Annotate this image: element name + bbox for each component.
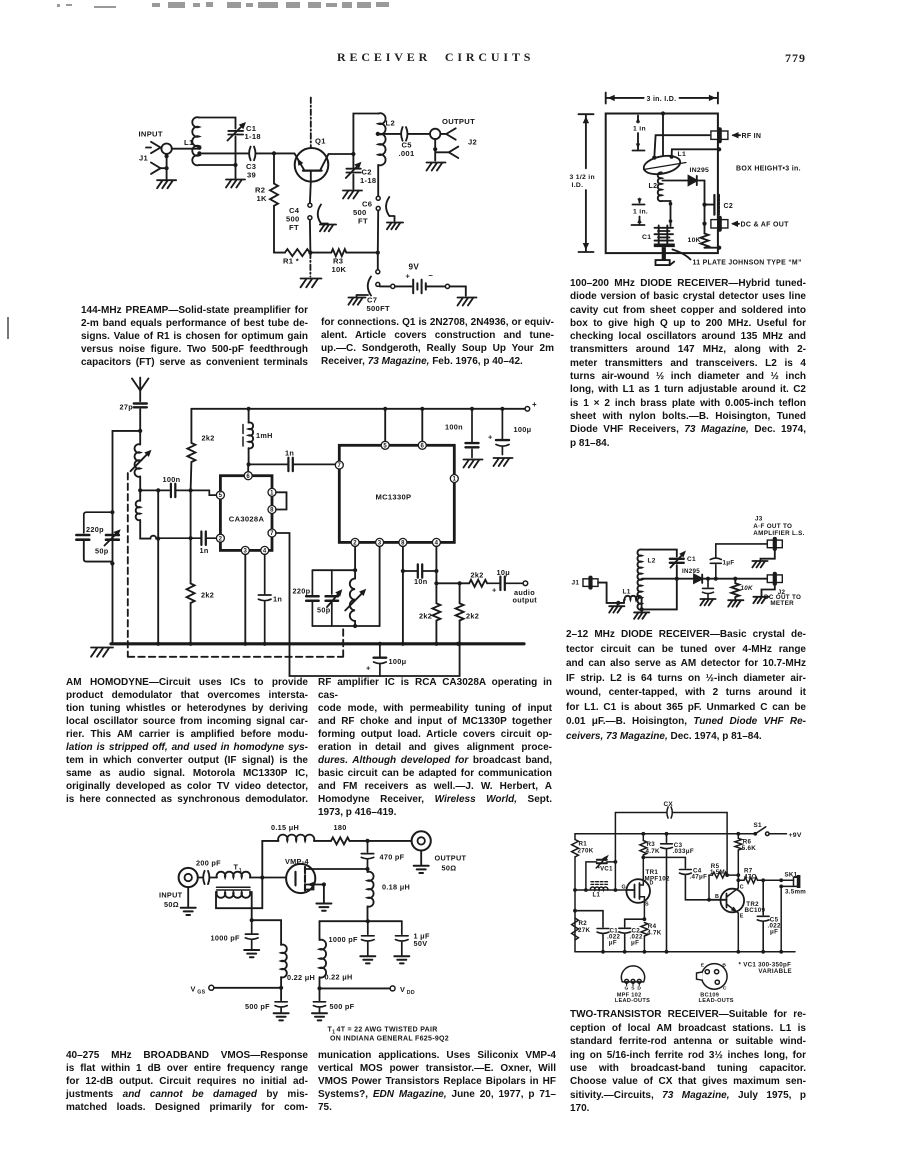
label RF IN [732, 132, 762, 140]
capacitor C3 39 [199, 147, 274, 161]
svg-text:2k2: 2k2 [419, 612, 432, 621]
svg-text:2: 2 [219, 536, 223, 542]
svg-text:500FT: 500FT [367, 304, 391, 313]
wire tank top [642, 550, 677, 557]
svg-text:10K: 10K [688, 237, 701, 244]
ground (tank) [226, 180, 245, 188]
svg-text:GS: GS [197, 989, 205, 995]
ground (L2) [641, 609, 643, 612]
capacitor 500 pF (drain) [313, 1002, 325, 1012]
svg-text:8: 8 [270, 508, 274, 514]
svg-text:C: C [740, 885, 744, 891]
svg-text:100n: 100n [163, 475, 181, 484]
caption 6 [570, 1008, 806, 1115]
capacitor 220p [76, 512, 112, 561]
svg-text:*VC1: *VC1 [598, 867, 614, 873]
svg-text:.47μF: .47μF [690, 874, 708, 881]
svg-text:500 pF: 500 pF [245, 1002, 270, 1011]
svg-text:1: 1 [239, 868, 242, 874]
capacitor 27p [134, 391, 147, 431]
node drain [365, 867, 369, 871]
svg-text:C1: C1 [642, 234, 651, 241]
svg-text:C1: C1 [687, 556, 696, 563]
svg-text:100μ: 100μ [389, 657, 407, 666]
svg-text:R2: R2 [579, 920, 588, 927]
svg-text:L1: L1 [623, 589, 631, 596]
svg-text:39: 39 [247, 171, 256, 180]
capacitor 1 uF 50V [396, 921, 409, 955]
svg-text:1-18: 1-18 [360, 176, 376, 185]
node coil/100n [138, 488, 142, 492]
wire input ground [187, 887, 189, 907]
connector J2 OUTPUT [430, 128, 458, 160]
svg-text:10n: 10n [414, 577, 427, 586]
svg-text:0.18 μH: 0.18 μH [382, 883, 410, 892]
resistor R7 47ohm [738, 877, 779, 883]
capacitor C1 .022uF [575, 911, 609, 952]
ground (battery) [458, 298, 477, 306]
node drain bias [366, 919, 370, 923]
caption 1 left [81, 304, 308, 369]
capacitor C7 500FT (feedthrough) [357, 253, 391, 297]
wire CX left drop [614, 813, 616, 891]
resistor R3 4.7K [640, 834, 647, 858]
wire J2 ground [762, 583, 775, 596]
wire stub (L1 support) [662, 114, 664, 159]
svg-text:+: + [366, 664, 371, 673]
shield partition (dash-dot) [310, 98, 312, 147]
transistor TR2 BC109 [709, 880, 744, 952]
wire pin3b down [379, 547, 381, 627]
terminal V+ [525, 407, 530, 412]
capacitor C6 500 FT (feedthrough) [376, 165, 394, 253]
svg-text:S: S [645, 902, 649, 908]
battery 9V [391, 271, 466, 296]
svg-text:50p: 50p [317, 606, 331, 615]
wire pin7 to decoupling loop [276, 533, 460, 676]
svg-text:2k2: 2k2 [202, 434, 215, 443]
svg-text:BOX HEIGHT•3 in.: BOX HEIGHT•3 in. [736, 166, 801, 173]
svg-text:4T = 22 AWG TWISTED PAIR: 4T = 22 AWG TWISTED PAIR [337, 1027, 438, 1034]
ground (output) [414, 866, 429, 873]
svg-text:1 in: 1 in [633, 126, 646, 133]
wire bias rail [320, 920, 402, 922]
resistor 2k2 (lower left) [187, 583, 195, 643]
node source [643, 917, 647, 921]
inductor (osc, variable) [345, 579, 366, 627]
node gate bias [250, 918, 254, 922]
wire secondary left return [216, 878, 262, 909]
connector J1 [146, 142, 172, 180]
capacitor C5 .022uF [757, 880, 769, 952]
wire pin6 to choke node [247, 464, 249, 471]
svg-text:0.22 μH: 0.22 μH [287, 973, 315, 982]
svg-text:IN295: IN295 [682, 568, 700, 575]
node VGS [279, 986, 283, 990]
svg-text:3 1/2 in: 3 1/2 in [570, 174, 595, 181]
ground (gate 500pF) [274, 1013, 289, 1020]
wire tank bottom bracket [312, 625, 379, 627]
svg-text:27K: 27K [578, 927, 590, 934]
svg-text:output: output [513, 596, 538, 605]
node collector [351, 152, 355, 156]
wire CX right drop [726, 813, 728, 876]
svg-text:10K: 10K [741, 585, 753, 592]
wire diode down [704, 181, 706, 234]
wire RF IN [654, 135, 709, 157]
capacitor 50p (variable) [105, 529, 121, 545]
svg-text:A·F OUT TO: A·F OUT TO [753, 523, 792, 530]
capacitor C1 (variable) [670, 551, 686, 568]
node tank bottom [110, 561, 114, 565]
ground (rail) [91, 648, 113, 657]
wire tank right lower [642, 565, 677, 609]
svg-text:47Ω: 47Ω [744, 873, 757, 880]
inductor (variable, RF input tank) [131, 431, 152, 491]
svg-text:7: 7 [337, 463, 341, 469]
capacitor C5 .001 [378, 127, 430, 141]
wire J3 ground [761, 548, 775, 560]
svg-text:500 pF: 500 pF [330, 1002, 355, 1011]
inductor 1mH [243, 409, 253, 465]
svg-text:G: G [622, 884, 627, 890]
svg-text:6: 6 [420, 443, 424, 449]
inductor L1 (ferrite rod) [590, 882, 607, 890]
svg-text:DD: DD [407, 990, 415, 996]
ground (C4) [320, 225, 336, 232]
inductor secondary (osc pickup) [136, 490, 158, 538]
connector OUTPUT 50ohm [412, 831, 431, 850]
svg-text:10μ: 10μ [497, 568, 510, 577]
transformer T1 primary [217, 872, 251, 878]
svg-text:VMP-4: VMP-4 [285, 857, 309, 866]
capacitor 100u (decoupling) [374, 644, 387, 676]
ground (100u top) [494, 458, 513, 466]
wire collector to L2 [353, 114, 378, 155]
wire pin1-pin8 jumper [276, 492, 287, 509]
capacitor C2 (brass plate) [705, 195, 719, 215]
svg-text:1mH: 1mH [256, 431, 273, 440]
resistor 180 [331, 837, 350, 844]
caption 4 [566, 628, 806, 744]
svg-text:CA3028A: CA3028A [229, 515, 265, 524]
inductor 0.15 uH [278, 835, 314, 841]
capacitor C (unmarked) [703, 579, 714, 598]
ground (unmarked C) [700, 599, 715, 605]
wire L1 to box wall [672, 149, 718, 156]
svg-text:FT: FT [358, 217, 368, 226]
svg-text:27p: 27p [120, 403, 134, 412]
node L1 ground tap [616, 601, 620, 605]
svg-text:INPUT: INPUT [139, 130, 163, 139]
svg-text:+: + [532, 400, 537, 409]
ground (source) [316, 904, 331, 911]
ground (10K) [728, 600, 743, 606]
svg-text:0.22 μH: 0.22 μH [325, 973, 353, 982]
dimension 3 in. I.D. [606, 93, 718, 104]
ground (100n) [464, 460, 483, 468]
resistor R6 5.6K [735, 834, 742, 881]
switch S1 [753, 827, 786, 836]
svg-text:μF: μF [609, 939, 617, 946]
svg-text:S1: S1 [754, 822, 763, 829]
wire collector [328, 153, 353, 155]
capacitor 10u [487, 577, 523, 590]
diode IN295 [663, 176, 705, 185]
inductor L2 [637, 549, 641, 609]
svg-text:1.5M: 1.5M [710, 869, 725, 876]
svg-text:50V: 50V [414, 939, 428, 948]
svg-text:1n: 1n [285, 449, 294, 458]
terminal VGS [209, 985, 214, 990]
resistor R1 270K [572, 834, 579, 952]
svg-text:MC1330P: MC1330P [376, 493, 412, 502]
wire supply rail [575, 833, 754, 835]
ground (L1) [617, 603, 618, 606]
svg-text:3.5mm: 3.5mm [785, 889, 806, 896]
wire V+ rail [191, 408, 525, 410]
svg-text:+: + [406, 272, 411, 281]
ground (emitter rail) [301, 279, 322, 288]
capacitor C4 500 FT (feedthrough) [308, 181, 328, 252]
ground (C7) [348, 298, 365, 305]
resistor 2k2 (audio shunt) [456, 583, 464, 644]
wire ground rail [575, 951, 795, 953]
wire gate line [575, 889, 627, 891]
svg-text:1n: 1n [273, 595, 282, 604]
svg-text:10K: 10K [332, 265, 347, 274]
svg-text:L1: L1 [184, 138, 194, 147]
ground (input) [181, 908, 196, 915]
capacitor 10n [403, 564, 437, 577]
header [337, 50, 534, 65]
connector J3 [767, 540, 782, 548]
caption 3 left [66, 676, 308, 807]
wire to output [350, 840, 412, 842]
inductor L2 [658, 172, 662, 201]
svg-text:180: 180 [334, 823, 347, 832]
inductor L1 (1-turn loop) [642, 153, 686, 177]
node output tap [365, 839, 369, 843]
ground (J2) [427, 163, 446, 171]
node antenna [138, 429, 142, 433]
antenna [132, 378, 148, 391]
svg-text:220p: 220p [86, 525, 104, 534]
terminal VDD [390, 986, 395, 991]
svg-text:2k2: 2k2 [466, 612, 479, 621]
svg-text:L1: L1 [593, 892, 601, 898]
capacitor C1 (variable 1-18) [228, 122, 247, 165]
wire pin5 to rail [384, 409, 386, 441]
capacitor 1n (pin 7 MC1330P) [249, 458, 336, 471]
wire ground rail [111, 642, 524, 645]
wire drain feed riser [262, 841, 278, 878]
inductor 0.22 uH (gate) [281, 945, 287, 978]
capacitor 100n (bypass) [466, 409, 479, 458]
resistor R1* [285, 249, 310, 256]
svg-text:L1: L1 [678, 151, 687, 158]
capacitor 1n (pin 2) [158, 532, 216, 545]
svg-text:VARIABLE: VARIABLE [758, 968, 792, 975]
capacitor CX [615, 807, 727, 818]
resistor 2k2 (upper left) [187, 409, 195, 584]
node gate [260, 875, 264, 879]
connector INPUT 50ohm [179, 868, 198, 887]
inductor L1 [618, 596, 641, 610]
resistor R4 4.7K [641, 923, 648, 952]
svg-text:OUTPUT: OUTPUT [435, 854, 467, 863]
resistor 2k2 (pin4 load) [432, 603, 440, 620]
svg-text:LEAD-OUTS: LEAD-OUTS [615, 998, 650, 1004]
node rail/C7 [376, 251, 380, 255]
svg-text:J3: J3 [755, 516, 763, 523]
svg-text:+: + [488, 433, 493, 442]
wire tank top [199, 118, 236, 129]
svg-text:100n: 100n [445, 423, 463, 432]
wire source to ground [323, 885, 325, 903]
svg-text:7: 7 [270, 531, 274, 537]
ground (J3) [752, 561, 767, 567]
svg-text:50Ω: 50Ω [442, 863, 457, 872]
caption 1 right [321, 316, 554, 368]
resistor 2k2 (audio series) [469, 580, 487, 587]
caption 5 right [318, 1049, 556, 1114]
capacitor 500 pF (gate) [275, 1002, 287, 1012]
node VDD [317, 986, 321, 990]
wire secondary right to bias [250, 892, 252, 920]
svg-text:4.7K: 4.7K [646, 848, 661, 855]
wire J1 to L1 [598, 583, 617, 603]
svg-text:100μ: 100μ [514, 425, 532, 434]
svg-text:2k2: 2k2 [471, 571, 484, 580]
svg-text:.033μF: .033μF [673, 848, 694, 855]
wire T1 to gate node [250, 877, 262, 879]
connector J2 [767, 575, 782, 583]
svg-text:μF: μF [631, 939, 639, 946]
connector J1 [583, 579, 598, 587]
connector DC & AF OUT [711, 220, 728, 228]
wire pin3 to ground rail [244, 555, 246, 644]
svg-text:6: 6 [246, 474, 250, 480]
wire bottom rail [274, 252, 378, 254]
resistor R2 1K [270, 153, 278, 252]
svg-text:C2: C2 [724, 203, 734, 210]
terminal audio output [523, 581, 528, 586]
dimension 3 1/2 in I.D. [570, 114, 595, 252]
svg-text:C: C [723, 986, 727, 992]
svg-text:+: + [492, 586, 497, 595]
svg-text:E: E [740, 914, 744, 920]
trimmer frame (Johnson) [654, 244, 675, 266]
node tank top [110, 510, 114, 514]
wire tank bottom [199, 164, 236, 166]
node emitter/rail [308, 251, 312, 255]
wire drain node [643, 856, 685, 858]
svg-text:J1: J1 [139, 154, 149, 163]
svg-text:DC & AF OUT: DC & AF OUT [741, 222, 790, 229]
svg-text:270K: 270K [578, 847, 594, 854]
svg-text:L2: L2 [649, 183, 658, 190]
node box wall [717, 147, 721, 151]
wire to ground [235, 165, 237, 179]
svg-text:J1: J1 [572, 580, 580, 587]
capacitor C1 (11-plate trimmer) [655, 226, 674, 244]
capacitor C2 (variable 1-18) [346, 154, 362, 189]
svg-text:11 PLATE JOHNSON TYPE “M”: 11 PLATE JOHNSON TYPE “M” [693, 260, 802, 267]
wire to left rail [113, 431, 141, 644]
resistor R3 10K [331, 249, 346, 256]
capacitor C4 .47uF [680, 857, 710, 899]
svg-text:+9V: +9V [789, 832, 802, 839]
svg-text:J2: J2 [468, 138, 477, 147]
svg-text:INPUT: INPUT [159, 891, 183, 900]
wire tap vertical [157, 490, 159, 643]
svg-text:1μF: 1μF [723, 560, 735, 567]
resistor 10K [731, 579, 739, 599]
svg-text:1n: 1n [200, 546, 209, 555]
svg-text:0.15 μH: 0.15 μH [271, 823, 299, 832]
inductor 0.22 uH (drain) [320, 921, 327, 1000]
caption 3 right [318, 676, 552, 820]
wire [314, 840, 331, 842]
svg-text:50p: 50p [95, 547, 109, 556]
transistor TR1 MPF102 [626, 857, 650, 919]
wire pin4 down [435, 547, 437, 604]
wire J1 to L1 [172, 148, 199, 150]
svg-text:5: 5 [383, 443, 387, 449]
shield partition (dashed) [128, 473, 343, 657]
wire pin8 to rail [402, 547, 404, 644]
package BC109 lead-outs [697, 964, 728, 990]
svg-text:μF: μF [770, 929, 778, 936]
svg-text:I.D.: I.D. [572, 182, 584, 189]
wire pin2 down [354, 547, 356, 579]
wire rail to ground (dashed) [309, 253, 311, 277]
capacitor C3 .033uF [661, 834, 673, 952]
transistor Q1 [295, 148, 329, 182]
svg-text:R1 *: R1 * [283, 257, 299, 266]
svg-text:3 in. I.D.: 3 in. I.D. [647, 96, 677, 103]
svg-text:470 pF: 470 pF [380, 853, 405, 862]
label 11 PLATE JOHNSON [673, 250, 802, 267]
top scan artifacts [66, 4, 72, 6]
svg-text:ON INDIANA GENERAL F625-9Q2: ON INDIANA GENERAL F625-9Q2 [330, 1036, 449, 1043]
IC U2 MC1330P [335, 441, 458, 546]
wire gate bias [252, 920, 281, 945]
capacitor 200 pF [198, 871, 217, 884]
inductor L2 [378, 113, 385, 165]
capacitor 1000 pF (gate) [245, 920, 258, 949]
svg-text:R1: R1 [579, 840, 588, 847]
capacitor 1uF [710, 544, 767, 579]
svg-text:.001: .001 [399, 149, 415, 158]
wire output ground [420, 851, 422, 865]
caption 2 [570, 277, 806, 450]
svg-text:B: B [715, 894, 719, 900]
svg-text:FT: FT [289, 223, 299, 232]
wire detector out [702, 578, 767, 580]
svg-text:SK1: SK1 [785, 871, 798, 878]
resistor R5 1.5M [709, 872, 738, 900]
dimension 1 in (lower) [632, 199, 649, 226]
svg-text:50Ω: 50Ω [164, 900, 179, 909]
enclosure box [606, 114, 718, 254]
ground (1uF) [394, 956, 409, 963]
node tank/ground [233, 163, 237, 167]
svg-text:OUTPUT: OUTPUT [442, 117, 475, 126]
svg-text:Q1: Q1 [315, 137, 326, 146]
dimension 1 in (upper) [633, 116, 646, 151]
